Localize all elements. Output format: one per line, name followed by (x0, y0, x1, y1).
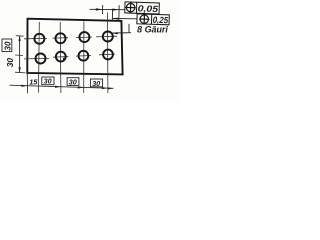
left dim arrow up (18, 36, 20, 41)
tick at 119 (118, 5, 120, 17)
svg-text:30: 30 (3, 41, 12, 50)
tick at 102.5 (101, 5, 103, 14)
bottom ext line plate left (26, 74, 28, 93)
svg-text:30: 30 (69, 77, 77, 86)
note leader arrow (112, 32, 118, 34)
boxed 30 #3 (90, 79, 102, 87)
ink speck on hole row2 col2 (63, 58, 66, 61)
row 1 horizontal centerline segments (16, 35, 24, 38)
bottom dim arrows (21, 85, 27, 87)
centerline column 2 (59, 22, 62, 93)
left dimension line (19, 36, 21, 73)
hole row2 col4 (103, 50, 113, 60)
svg-text:30: 30 (92, 79, 100, 88)
hole row1 col3 (79, 32, 89, 42)
bottom dimension line (10, 85, 114, 88)
hole row2 col3 (79, 51, 89, 61)
boxed 30 left (2, 39, 12, 52)
hole row1 col2 (56, 33, 66, 43)
svg-text:30: 30 (44, 77, 52, 86)
frame2 leader arrow (113, 17, 120, 19)
centerline tick above plate col4 (111, 9, 113, 21)
boxed 30 #2 (67, 78, 79, 86)
centerline column 4 (107, 13, 109, 94)
hole row1 col1 (34, 34, 44, 44)
frame 1 position 0,05 (125, 2, 160, 14)
row 2 horizontal centerline segments (15, 54, 23, 57)
frame 2 position 0,25 (137, 14, 170, 25)
hole row2 col1 (36, 54, 46, 64)
hole row1 col4 (103, 32, 113, 42)
leader arrow 1 (96, 8, 103, 10)
left bottom extension tick (15, 71, 26, 74)
svg-text:0,05: 0,05 (138, 3, 160, 14)
boxed 30 #1 (42, 77, 54, 85)
centerline column 3 (83, 22, 85, 94)
svg-text:8 Găuri: 8 Găuri (137, 25, 168, 35)
svg-text:30: 30 (5, 58, 15, 68)
leader to 8 Gauri note (128, 24, 130, 33)
leader arrow 2 (112, 9, 119, 11)
plate outline (27, 19, 122, 75)
leader to frame1 (90, 8, 125, 10)
centerline column 1 (38, 22, 41, 93)
leader to frame2 (113, 18, 137, 20)
hole row2 col2 (56, 52, 66, 62)
left dim arrow down (18, 67, 20, 72)
svg-text:15: 15 (29, 77, 38, 86)
